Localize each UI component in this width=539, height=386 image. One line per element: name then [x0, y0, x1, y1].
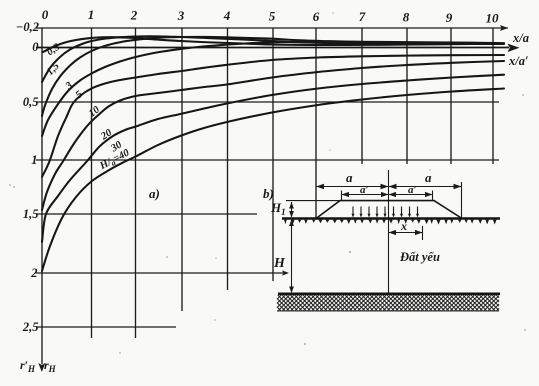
svg-text:2,5: 2,5: [22, 320, 39, 334]
svg-text:H: H: [273, 256, 286, 271]
svg-text:−0,2: −0,2: [16, 20, 39, 34]
svg-text:x/a′: x/a′: [508, 54, 529, 68]
svg-text:6: 6: [313, 9, 320, 24]
svg-text:a′: a′: [360, 184, 369, 196]
svg-text:a): a): [149, 186, 160, 201]
svg-text:10: 10: [486, 11, 500, 26]
svg-text:a: a: [346, 170, 353, 185]
svg-text:x/a: x/a: [512, 31, 529, 45]
svg-text:7: 7: [359, 9, 366, 24]
svg-text:0,5: 0,5: [23, 95, 39, 109]
svg-text:8: 8: [403, 10, 410, 25]
svg-text:4: 4: [223, 8, 231, 23]
svg-text:Đất yếu: Đất yếu: [399, 250, 440, 264]
svg-text:b): b): [263, 186, 274, 201]
svg-text:1: 1: [31, 153, 37, 167]
svg-text:5: 5: [269, 9, 276, 24]
svg-text:a: a: [425, 170, 432, 185]
svg-text:0: 0: [42, 7, 49, 22]
svg-text:x: x: [400, 219, 407, 233]
svg-text:9: 9: [446, 10, 453, 25]
svg-text:a′: a′: [408, 184, 417, 196]
svg-text:1,5: 1,5: [23, 207, 39, 221]
svg-text:3: 3: [177, 8, 185, 23]
svg-text:0: 0: [32, 40, 39, 54]
svg-text:1: 1: [88, 7, 95, 22]
svg-text:2: 2: [30, 266, 37, 280]
svg-text:2: 2: [130, 8, 138, 23]
